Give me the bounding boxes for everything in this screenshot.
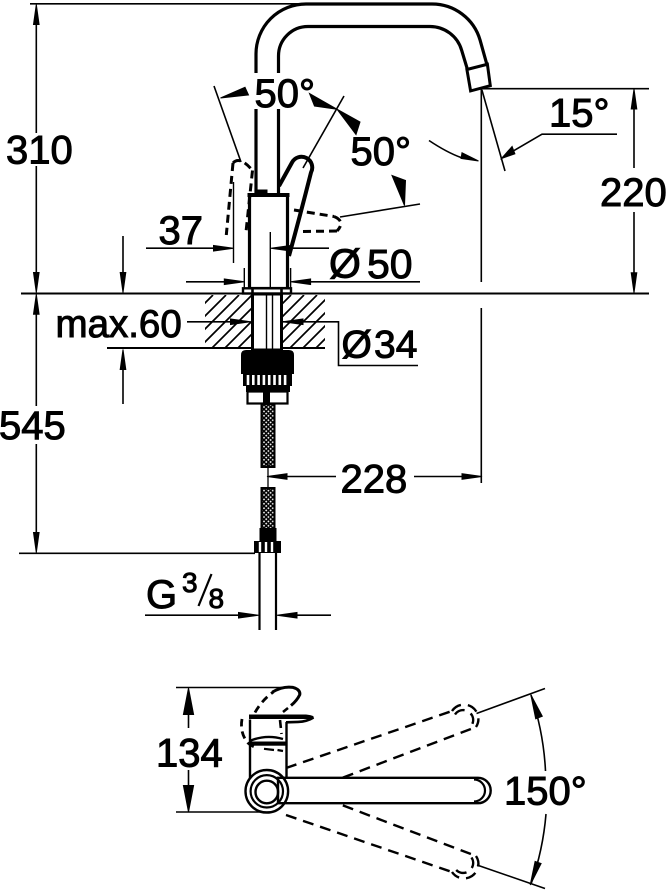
swivel circles <box>245 770 288 813</box>
hose centerline gap <box>267 463 269 490</box>
shank <box>253 294 282 350</box>
crimp sleeve <box>260 528 277 541</box>
G3/8 dim <box>145 614 331 616</box>
plate bar <box>249 715 314 720</box>
lever hook hidden left arc <box>241 719 256 748</box>
svg-text:37: 37 <box>159 209 204 253</box>
Ø50 ext lines <box>243 268 245 289</box>
angle line L3 <box>340 204 420 217</box>
solid lever <box>279 157 312 256</box>
countertop hatch <box>147 295 369 348</box>
lower dashed spout <box>286 799 478 878</box>
angle arrow 1 <box>221 87 249 98</box>
hose nut <box>254 541 281 553</box>
black band <box>249 742 286 746</box>
134 ext lines <box>176 687 284 689</box>
solid spout top view <box>278 778 491 803</box>
angle line L1 <box>214 86 241 162</box>
svg-text:Ø: Ø <box>342 324 372 367</box>
supply pipe <box>258 553 260 630</box>
150 arc <box>531 695 546 771</box>
310 dim line <box>35 24 37 273</box>
svg-text:Ø: Ø <box>329 241 361 287</box>
mounting nut <box>241 350 294 374</box>
swivel arc arrow <box>429 141 461 158</box>
escutcheon <box>243 288 291 293</box>
svg-text:310: 310 <box>6 129 73 173</box>
bowtie arrows on L2 <box>310 94 338 110</box>
Ø50 dim <box>186 281 224 283</box>
slab bottom line <box>107 347 325 349</box>
surface line <box>21 293 649 295</box>
spout outer edge <box>256 4 487 194</box>
310 top ext line <box>30 3 306 5</box>
svg-text:50°: 50° <box>255 72 316 116</box>
aerator cap <box>467 64 490 91</box>
svg-text:50°: 50° <box>351 130 412 174</box>
plate lower edge <box>286 718 314 723</box>
220 dim line <box>633 108 635 273</box>
svg-text:8: 8 <box>209 583 225 614</box>
angle line L2 <box>303 96 344 168</box>
svg-text:134: 134 <box>156 732 223 776</box>
body <box>250 195 288 289</box>
lever tip solid <box>273 687 300 705</box>
svg-text:228: 228 <box>341 458 408 502</box>
228 dim <box>286 476 462 478</box>
37 ext line <box>233 182 235 263</box>
svg-text:220: 220 <box>600 171 666 215</box>
lever tip inner dash <box>280 708 288 734</box>
body center line <box>269 232 271 289</box>
svg-text:max.60: max.60 <box>56 303 182 346</box>
svg-text:3: 3 <box>182 567 198 598</box>
svg-text:15°: 15° <box>549 92 610 136</box>
134 dim <box>188 708 190 791</box>
lever hook dashed outer <box>255 692 274 713</box>
arch <box>250 737 284 741</box>
svg-text:G: G <box>146 573 177 617</box>
220 top ext line <box>483 88 649 90</box>
svg-text:545: 545 <box>0 404 66 448</box>
thin angle lines <box>477 689 546 714</box>
body top thick <box>248 193 290 197</box>
spout inner edge <box>279 27 468 195</box>
545 dim <box>35 314 37 532</box>
riser text gap cover <box>250 73 284 109</box>
left dashed lever <box>226 161 252 236</box>
max.60 dim <box>122 236 124 404</box>
svg-text:34: 34 <box>374 324 417 367</box>
svg-text:150°: 150° <box>504 770 587 814</box>
15 deg leader <box>503 134 617 157</box>
right dashed lever <box>294 210 341 232</box>
angle arrow 3 <box>392 176 406 206</box>
body edges <box>249 720 251 779</box>
upper dashed spout <box>286 705 478 784</box>
Ø34 leader right <box>283 322 418 366</box>
svg-text:50: 50 <box>367 241 413 287</box>
braided hose lower <box>262 488 275 532</box>
vertical ext from spout tip <box>480 89 482 484</box>
dashes under band <box>264 749 283 751</box>
escutcheon shank ticks <box>253 289 282 294</box>
washer plate <box>248 392 288 404</box>
braided hose upper <box>262 404 275 467</box>
clips <box>246 386 290 392</box>
pivot tab <box>257 190 268 195</box>
37 dim <box>146 247 214 249</box>
15 deg slant line <box>482 89 506 172</box>
G3/8 ext line <box>19 552 255 554</box>
Ø34 leader left (max60 leader) <box>187 321 231 323</box>
